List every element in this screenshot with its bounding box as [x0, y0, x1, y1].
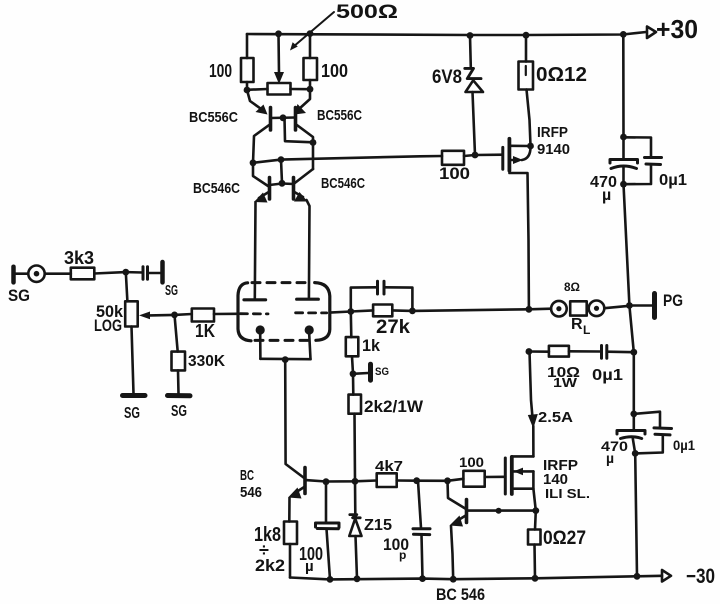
node cathode bus [282, 356, 289, 363]
node PG line / bottom caps [630, 411, 637, 418]
node Q3Q4 bases [279, 180, 286, 187]
svg-text:1K: 1K [195, 321, 215, 341]
svg-text:9140: 9140 [537, 141, 570, 158]
svg-text:BC546C: BC546C [193, 180, 240, 197]
resistor 100 gate bottom [448, 454, 506, 487]
node base link [280, 114, 287, 121]
node grid / 27K / 1k [347, 308, 354, 315]
current arrow 2.5A [528, 352, 573, 457]
capacitor 0u1 top [624, 137, 688, 189]
svg-text:100: 100 [439, 164, 470, 183]
svg-text:µ: µ [606, 450, 614, 466]
node bases Q3Q4 / long wire [278, 156, 285, 163]
wire right grid to feedback [330, 312, 351, 313]
svg-text:4k7: 4k7 [375, 458, 403, 475]
svg-text:0µ1: 0µ1 [659, 172, 687, 189]
node on sense wire [496, 508, 502, 514]
tube envelope ECC dual triode [238, 283, 330, 341]
capacitor 0u1 bottom [634, 412, 695, 454]
speaker RL 8R [529, 280, 630, 337]
wire Q5 collector line to 4k7 [307, 480, 376, 481]
resistor 4k7 [375, 458, 448, 487]
resistor 2k2/1W [349, 374, 424, 482]
resistor 1k8-2k2 [254, 522, 297, 578]
node output / PG branch [626, 302, 633, 309]
resistor 1k cathode [346, 312, 381, 374]
transistor Q1 BC556C left [189, 90, 271, 163]
wire mirror output to gate resistor [253, 156, 442, 163]
transistor Q6 BC546 right [448, 481, 467, 579]
svg-text:1k: 1k [362, 336, 381, 355]
node top rail / right 100 [307, 30, 314, 37]
resistor 0R12 [519, 35, 588, 145]
input connector [28, 266, 71, 282]
node 0R12 / M1 source [527, 143, 534, 150]
svg-text:330K: 330K [188, 353, 225, 370]
node 4k7 line / 100 / Q6 collector [444, 477, 451, 484]
resistor 100 left [209, 34, 254, 90]
svg-text:µ: µ [602, 187, 611, 204]
wire source sense to Q6 base [468, 509, 536, 512]
node rail Q6 emitter [450, 576, 457, 583]
capacitor feedback parallel [351, 281, 413, 311]
resistor 100 gate top [439, 151, 503, 183]
svg-text:ILI SL.: ILI SL. [545, 486, 590, 501]
wire feedback node to output [412, 309, 529, 311]
svg-text:BC 546: BC 546 [436, 585, 485, 604]
node Q2 collector / bases [310, 139, 317, 146]
svg-text:BC556C: BC556C [189, 109, 238, 126]
svg-text:100: 100 [321, 61, 348, 81]
svg-text:0Ω27: 0Ω27 [543, 528, 586, 549]
tube grid left dashes [240, 312, 268, 315]
node 1k / SG / 2k2 [350, 370, 357, 377]
node rail 0R27 [532, 575, 539, 582]
node left vertical / long wire [250, 159, 257, 166]
tube cathode right [305, 325, 314, 359]
node top rail / 0R12 [523, 32, 530, 39]
node top rail / 470u branch [620, 31, 627, 38]
zener 6V8 [432, 36, 483, 156]
transistor Q3 BC546C left [193, 160, 294, 300]
svg-text:1W: 1W [553, 375, 578, 390]
wire PG line down [629, 306, 633, 414]
node bottom caps lower [632, 450, 639, 457]
svg-text:µ: µ [305, 558, 314, 575]
node M2 source [532, 507, 539, 514]
svg-text:546: 546 [240, 484, 262, 501]
svg-text:100: 100 [209, 61, 232, 81]
potentiometer 50k LOG [94, 272, 175, 422]
node rail Z15 [354, 575, 361, 582]
mosfet M2 IRFP140 [505, 456, 590, 510]
svg-text:Z15: Z15 [364, 517, 392, 534]
resistor 0R27 [528, 511, 586, 579]
node 470u bottom [620, 181, 627, 188]
node 100u [323, 478, 330, 485]
svg-text:BC556C: BC556C [317, 107, 362, 124]
svg-text:LOG: LOG [94, 316, 122, 335]
node output / drain line [526, 306, 533, 313]
potentiometer 500R [247, 34, 310, 95]
svg-text:R: R [571, 316, 583, 333]
svg-text:L: L [583, 323, 590, 337]
node zobel / PG line [630, 349, 637, 356]
wire +30 top rail [247, 32, 646, 35]
tube grid right dashes [296, 311, 327, 314]
node 2k2 / Z15 [352, 478, 359, 485]
node rail caps [634, 573, 641, 580]
wire +30 branch to decoupling caps [622, 34, 625, 137]
node top rail / pot wiper [275, 30, 282, 37]
wire Q2 node down to Q4 collector [312, 143, 315, 170]
node wiper / 330k / 1K [171, 312, 178, 319]
transistor Q4 BC546C right [294, 169, 366, 299]
ground SG stub [353, 364, 389, 380]
svg-text:PG: PG [663, 291, 683, 310]
svg-text:0µ1: 0µ1 [673, 437, 695, 453]
svg-text:0Ω12: 0Ω12 [536, 64, 587, 86]
mosfet M1 IRFP9140 [503, 124, 570, 309]
capacitor 0u1 zobel [592, 346, 634, 385]
svg-text:6V8: 6V8 [432, 67, 462, 88]
label 500R with pointer arrow [290, 2, 398, 51]
zener Z15 [349, 481, 392, 578]
svg-text:+30: +30 [656, 14, 698, 44]
node top rail / 6V8 [467, 32, 474, 39]
svg-text:SG: SG [165, 282, 178, 299]
transistor Q2 BC556C right [295, 89, 363, 142]
node right 100 / pot / Q2 emitter [307, 86, 314, 93]
node rail 100u [327, 576, 334, 583]
svg-text:8Ω: 8Ω [564, 280, 580, 294]
svg-text:500Ω: 500Ω [336, 2, 398, 23]
svg-text:27k: 27k [376, 317, 410, 338]
wire -30 bottom rail [290, 576, 662, 580]
svg-text:BC546C: BC546C [321, 175, 365, 192]
capacitor input to SG [126, 262, 178, 299]
node 100p [413, 477, 420, 484]
node left 100 / pot / Q1 emitter [244, 87, 251, 94]
wire cathode bus [260, 357, 310, 360]
resistor 27K [351, 305, 413, 339]
svg-text:SG: SG [375, 366, 389, 378]
wire caps to output line [624, 184, 630, 305]
svg-text:SG: SG [124, 405, 140, 422]
terminal +30 arrow [647, 14, 698, 44]
node 27K right [409, 308, 416, 315]
tube anode right [297, 298, 319, 301]
node input [122, 269, 129, 276]
svg-text:BC: BC [240, 467, 254, 484]
resistor 3k3 [64, 248, 126, 279]
node 6V8 / gate wire [472, 152, 479, 159]
svg-text:SG: SG [8, 286, 30, 305]
capacitor 470u bottom [601, 414, 645, 466]
terminal -30 arrow [662, 565, 715, 588]
input terminal SG bar [8, 267, 30, 305]
tube anode left [244, 298, 266, 301]
capacitor 470u top [590, 137, 638, 204]
svg-text:3k3: 3k3 [64, 248, 94, 268]
svg-text:−30: −30 [686, 565, 715, 588]
svg-text:p: p [399, 548, 406, 562]
svg-text:SG: SG [171, 403, 187, 420]
svg-text:100: 100 [459, 454, 484, 470]
resistor 330k [168, 315, 226, 420]
capacitor 100p [383, 481, 430, 579]
zobel 10R 1W [529, 346, 600, 390]
svg-text:2k2/1W: 2k2/1W [364, 397, 424, 416]
svg-text:2.5A: 2.5A [538, 409, 573, 426]
transistor Q5 BC546 left [240, 360, 307, 522]
node drain line / zobel [526, 348, 533, 355]
wire caps to -30 rail [635, 453, 637, 576]
svg-text:IRFP: IRFP [537, 124, 568, 141]
wire Q1-Q2 base link [271, 118, 314, 143]
tube cathode left [256, 325, 265, 358]
node rail 100p [419, 575, 426, 582]
svg-text:2k2: 2k2 [255, 556, 285, 575]
terminal PG [629, 291, 683, 318]
capacitor 100u [299, 482, 339, 580]
resistor 100 right [304, 34, 349, 89]
svg-text:0µ1: 0µ1 [592, 367, 623, 384]
resistor 1K input [175, 309, 237, 342]
node 470u top [620, 134, 627, 141]
